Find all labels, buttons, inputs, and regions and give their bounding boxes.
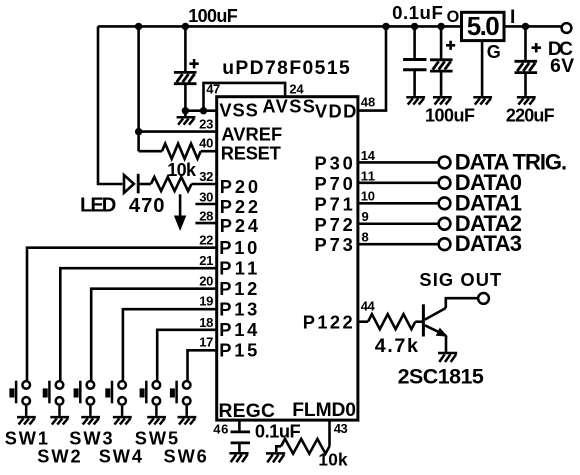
wire AVREF riser	[137, 26, 140, 151]
terminal DATA2	[439, 218, 451, 230]
wire VDD pin 48 to rail	[358, 26, 386, 110]
LED D1	[124, 175, 134, 193]
svg-text:14: 14	[361, 148, 376, 163]
wire regulator ground	[481, 41, 484, 96]
capacitor C1 100uF electrolytic	[174, 72, 197, 83]
svg-text:VDD: VDD	[315, 101, 356, 122]
svg-text:O: O	[447, 8, 460, 26]
svg-text:P72: P72	[315, 214, 353, 235]
svg-text:470: 470	[129, 195, 165, 217]
svg-text:18: 18	[199, 315, 213, 330]
wire 220uF bottom lead	[524, 73, 527, 96]
wire 100uF right bottom lead	[440, 71, 443, 96]
svg-text:P122: P122	[303, 311, 353, 332]
ground 220uF	[517, 97, 536, 104]
arrow annotation down	[179, 194, 182, 219]
svg-text:VSS: VSS	[219, 100, 257, 121]
node AVREF/RESET junction	[135, 128, 142, 135]
wire 10k to ground	[276, 446, 281, 452]
svg-text:RESET: RESET	[221, 142, 281, 163]
svg-text:FLMD0: FLMD0	[292, 400, 356, 421]
svg-text:24: 24	[289, 82, 304, 97]
resistor R4 10k FLMD0	[281, 439, 330, 454]
resistor R2 470	[151, 177, 192, 191]
wire FLMD0 stub	[328, 420, 331, 447]
wire P122 to 4.7k	[358, 320, 368, 323]
regulator U2 5.0	[462, 12, 505, 40]
svg-text:DATA3: DATA3	[455, 231, 522, 256]
svg-text:2SC1815: 2SC1815	[398, 364, 484, 388]
svg-text:32: 32	[199, 169, 213, 184]
wire REGC stub	[238, 420, 241, 431]
svg-text:SIG OUT: SIG OUT	[419, 269, 501, 290]
svg-text:4.7k: 4.7k	[375, 335, 419, 357]
ground 100uF right	[433, 97, 452, 104]
svg-text:21: 21	[199, 253, 213, 268]
switch SW2	[43, 381, 64, 416]
wire P30 to DATA TRIG	[358, 161, 438, 164]
svg-text:11: 11	[361, 168, 375, 183]
svg-text:uPD78F0515: uPD78F0515	[222, 58, 350, 79]
node junction rail/VDD	[382, 23, 389, 30]
svg-text:5.0: 5.0	[467, 11, 500, 41]
svg-text:9: 9	[362, 209, 369, 224]
wire P14 to SW5	[157, 330, 217, 381]
svg-text:SW4: SW4	[99, 446, 143, 466]
svg-text:P13: P13	[219, 298, 257, 319]
wire P22 stub	[195, 203, 216, 206]
svg-text:23: 23	[199, 117, 213, 132]
IC U1 uPD78F0515	[217, 97, 358, 420]
svg-text:0.1uF: 0.1uF	[392, 2, 443, 23]
svg-text:100uF: 100uF	[425, 105, 475, 125]
svg-text:0.1uF: 0.1uF	[255, 420, 301, 441]
svg-text:P14: P14	[219, 319, 258, 340]
svg-text:47: 47	[206, 82, 220, 97]
capacitor C3 100uF electrolytic	[430, 60, 453, 71]
switch SW6	[170, 381, 191, 416]
terminal SIG OUT	[478, 293, 489, 304]
wire 100uF cap top lead	[184, 26, 187, 73]
wire P71 to DATA1	[358, 202, 438, 205]
svg-text:28: 28	[199, 208, 213, 223]
wire P73 to DATA3	[358, 243, 438, 246]
wire 0.1uF bottom lead	[413, 70, 416, 96]
resistor R3 4.7k	[368, 314, 415, 329]
wire 100uF right top lead	[440, 26, 443, 60]
wire VSS to pin 47	[185, 109, 216, 112]
wire LED cathode to 470 resistor	[140, 183, 151, 186]
svg-text:100uF: 100uF	[188, 6, 238, 26]
switch SW3	[74, 381, 95, 416]
svg-text:20: 20	[199, 274, 213, 289]
ground 0.1uF	[406, 97, 425, 104]
svg-text:P22: P22	[220, 196, 258, 217]
wire P10 to SW1	[27, 248, 217, 381]
svg-text:LED: LED	[80, 195, 116, 217]
capacitor C5 220uF electrolytic	[515, 61, 538, 72]
svg-text:P20: P20	[220, 176, 258, 197]
svg-text:44: 44	[361, 299, 376, 314]
svg-text:43: 43	[334, 421, 348, 436]
svg-text:P73: P73	[315, 234, 353, 255]
svg-text:17: 17	[199, 334, 213, 349]
svg-text:AVSS: AVSS	[262, 95, 315, 116]
wire P12 to SW3	[91, 289, 217, 381]
svg-text:10k: 10k	[318, 449, 348, 469]
wire 100uF bottom lead to VSS node	[184, 84, 187, 116]
wire 4.7k to base	[415, 320, 422, 323]
svg-text:P71: P71	[315, 193, 353, 214]
svg-text:22: 22	[199, 233, 213, 248]
svg-text:P70: P70	[315, 173, 353, 194]
node AVSS riser junction	[200, 107, 207, 114]
node junction rail/0.1uF	[411, 23, 418, 30]
wire left drop from rail to LED row	[98, 26, 122, 184]
svg-text:AVREF: AVREF	[221, 123, 282, 144]
svg-text:G: G	[487, 42, 501, 62]
node junction rail/100uF right	[437, 23, 444, 30]
svg-text:SW6: SW6	[164, 446, 207, 466]
wire REGC cap to ground	[238, 443, 241, 452]
node junction rail/AVREF riser	[135, 23, 142, 30]
terminal DATA TRIG	[439, 157, 451, 169]
svg-text:P30: P30	[315, 152, 353, 173]
wire P24 stub	[195, 222, 216, 225]
ground under VSS node	[177, 117, 196, 124]
svg-text:10: 10	[361, 189, 375, 204]
terminal DATA0	[439, 177, 451, 189]
svg-text:P11: P11	[219, 257, 257, 278]
capacitor C2 0.1uF	[403, 58, 426, 61]
node VSS junction	[182, 107, 189, 114]
wire AVSS riser to pin 24	[204, 83, 286, 111]
terminal DATA3	[439, 238, 451, 250]
switch SW4	[105, 381, 126, 416]
wire P13 to SW4	[123, 309, 217, 380]
node junction rail/100uF cap	[182, 23, 189, 30]
transistor Q1 2SC1815	[422, 304, 425, 336]
wire AVREF to pin 23	[139, 130, 217, 133]
svg-text:8: 8	[362, 230, 369, 245]
wire P15 to SW6	[188, 350, 217, 380]
wire emitter to ground	[445, 336, 448, 352]
wire 0.1uF top lead	[413, 26, 416, 58]
svg-text:46: 46	[213, 422, 228, 437]
ground emitter	[438, 353, 457, 362]
svg-text:REGC: REGC	[219, 401, 275, 422]
wire 470 resistor to pin 32	[192, 183, 217, 186]
svg-text:P24: P24	[220, 215, 259, 236]
svg-text:P15: P15	[219, 340, 257, 361]
resistor R1 10k RESET pullup	[162, 144, 201, 159]
switch SW1	[9, 381, 30, 416]
wire 220uF top lead	[524, 26, 527, 61]
ground REGC	[229, 453, 248, 462]
wire to RESET resistor	[139, 150, 162, 153]
svg-text:48: 48	[361, 94, 376, 109]
svg-text:19: 19	[199, 293, 213, 308]
wire P11 to SW2	[60, 268, 216, 380]
switch SW5	[140, 381, 161, 416]
svg-text:SW2: SW2	[37, 446, 80, 466]
svg-text:220uF: 220uF	[506, 105, 555, 125]
wire P70 to DATA0	[358, 182, 438, 185]
svg-text:I: I	[510, 7, 515, 28]
node junction rail/220uF	[522, 23, 529, 30]
wire P72 to DATA2	[358, 222, 438, 225]
wire RESET resistor to pin 40	[201, 150, 217, 153]
svg-text:40: 40	[199, 136, 213, 151]
svg-text:P12: P12	[219, 278, 257, 299]
terminal DATA1	[439, 197, 451, 209]
svg-text:P10: P10	[219, 237, 257, 258]
ground FLMD0	[266, 453, 285, 462]
ground regulator	[473, 97, 492, 104]
capacitor C4 0.1uF REGC	[231, 430, 250, 433]
terminal DC input	[562, 23, 572, 33]
svg-text:6V: 6V	[550, 56, 574, 77]
svg-text:30: 30	[199, 189, 213, 204]
wire top power rail	[98, 25, 562, 28]
